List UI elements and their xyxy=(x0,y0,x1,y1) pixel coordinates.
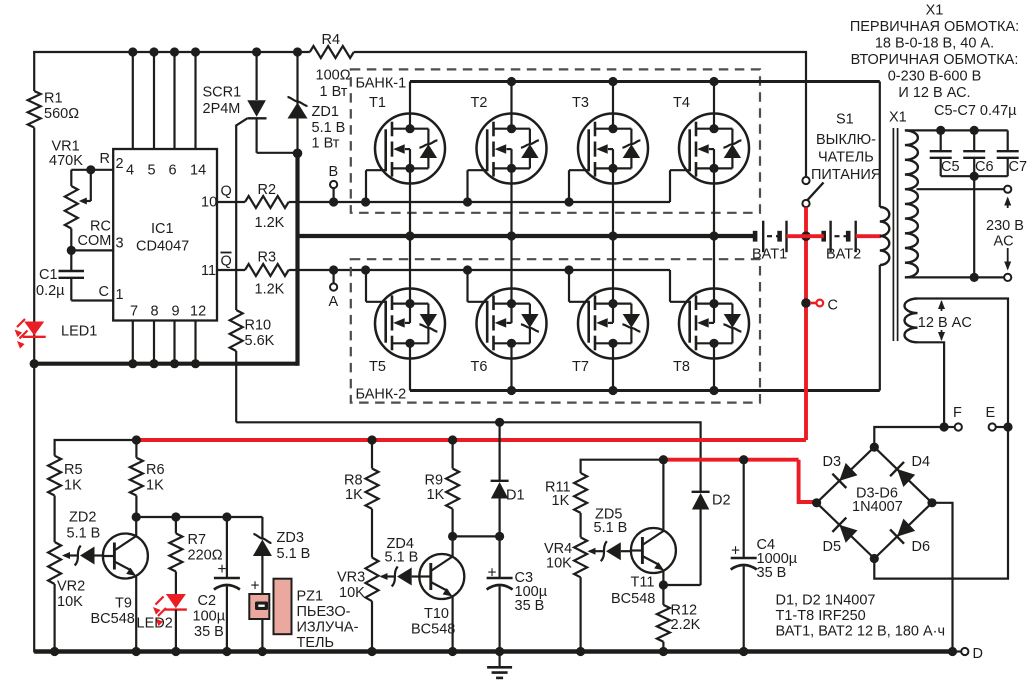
svg-text:2: 2 xyxy=(116,156,124,172)
svg-text:БАНК-2: БАНК-2 xyxy=(356,387,407,403)
svg-text:T6: T6 xyxy=(471,359,488,375)
wire R11 top link xyxy=(581,455,668,473)
svg-text:+: + xyxy=(488,565,497,582)
svg-text:12 В AC: 12 В AC xyxy=(918,315,972,331)
svg-text:T5: T5 xyxy=(369,359,386,375)
svg-text:S1: S1 xyxy=(836,112,854,128)
resistor R5 xyxy=(48,456,82,496)
wire T10 emitter lead xyxy=(452,597,454,652)
svg-text:1K: 1K xyxy=(552,493,570,509)
svg-text:10K: 10K xyxy=(57,594,83,610)
svg-text:R: R xyxy=(100,151,110,167)
wire R5-VR2 link xyxy=(53,496,55,543)
transistor T11 xyxy=(611,528,676,607)
zener diode ZD5 xyxy=(594,507,631,562)
capacitor C4 xyxy=(731,455,798,651)
svg-text:8: 8 xyxy=(151,304,159,320)
svg-text:R2: R2 xyxy=(258,182,277,198)
wire T7 gate stub xyxy=(568,270,570,302)
svg-text:D1, D2 1N4007: D1, D2 1N4007 xyxy=(776,593,876,609)
wire T8 top lead xyxy=(713,236,715,304)
terminal 230V upper xyxy=(1004,186,1011,193)
wire red charge bus xyxy=(136,438,806,442)
transistor T7 (MOSFET) xyxy=(569,289,648,376)
transformer X1 core xyxy=(889,110,907,342)
IC1 pin 10 label Q xyxy=(201,184,232,211)
wire T8 bottom lead xyxy=(713,343,715,390)
IC1 pin 7 wire xyxy=(128,304,138,369)
transistor T3 (MOSFET) xyxy=(569,95,648,184)
transistor T2 (MOSFET) xyxy=(468,95,547,184)
svg-text:D4: D4 xyxy=(912,454,931,470)
svg-text:PZ1: PZ1 xyxy=(297,589,324,605)
svg-text:ЧАТЕЛЬ: ЧАТЕЛЬ xyxy=(818,150,874,166)
svg-text:A: A xyxy=(329,294,339,310)
potentiometer VR2 xyxy=(48,542,85,652)
wire secondary top xyxy=(905,126,1008,135)
label 12V AC with arrows xyxy=(918,300,972,341)
wire bold battery center rail xyxy=(298,231,756,240)
dashed box BANK-2 xyxy=(351,259,760,402)
svg-text:D6: D6 xyxy=(912,539,931,555)
svg-text:C7: C7 xyxy=(1009,159,1028,175)
resistor R9 xyxy=(425,435,460,508)
wire R5 top link xyxy=(55,435,141,455)
zener diode ZD3 xyxy=(253,517,310,652)
wire left supply bus (vertical) xyxy=(33,51,35,653)
svg-text:T7: T7 xyxy=(572,359,589,375)
wire bank-2 drain rail xyxy=(410,386,880,395)
label component notes xyxy=(776,593,946,640)
svg-text:5.1 В: 5.1 В xyxy=(385,550,419,566)
svg-text:SCR1: SCR1 xyxy=(203,85,242,101)
svg-text:COM: COM xyxy=(78,233,112,249)
svg-text:C1: C1 xyxy=(39,267,58,283)
svg-text:1 Вт: 1 Вт xyxy=(320,84,348,100)
wire T4 gate stub xyxy=(669,170,671,202)
transistor T9 xyxy=(91,534,148,628)
IC1 pin 12 wire xyxy=(190,304,206,369)
capacitor C3 xyxy=(487,536,548,651)
potentiometer VR4 xyxy=(544,537,604,651)
svg-text:10K: 10K xyxy=(546,556,572,572)
svg-text:T4: T4 xyxy=(673,95,690,111)
terminal E xyxy=(986,405,1013,432)
svg-text:11: 11 xyxy=(201,263,216,279)
wire T3 source lead xyxy=(612,168,614,236)
wire R4 to S1 xyxy=(354,52,806,176)
transformer X1 secondary winding xyxy=(905,130,918,277)
wire T6 top lead xyxy=(510,236,512,304)
svg-text:2.2K: 2.2K xyxy=(671,617,701,633)
svg-text:BC548: BC548 xyxy=(611,591,655,607)
wire T5 gate stub xyxy=(365,270,367,302)
wire R6 lead xyxy=(135,440,137,458)
svg-text:10K: 10K xyxy=(339,585,365,601)
diode D4 xyxy=(874,447,932,503)
svg-text:T8: T8 xyxy=(673,359,690,375)
IC1 pin 1 wire (C) xyxy=(71,284,123,303)
label bridge D3-D6 xyxy=(852,486,903,516)
svg-text:1K: 1K xyxy=(64,478,82,494)
diode D5 xyxy=(817,503,875,559)
diode D3 xyxy=(817,447,875,503)
svg-text:C5-C7 0.47µ: C5-C7 0.47µ xyxy=(934,103,1017,119)
wire T10 collector node to D1/C3 xyxy=(453,532,505,541)
capacitor C5 xyxy=(930,130,960,176)
wire T2 drain lead xyxy=(510,82,512,129)
svg-text:1N4007: 1N4007 xyxy=(852,499,903,515)
wire bold logic ground rail xyxy=(30,359,298,368)
svg-text:+: + xyxy=(218,561,227,578)
node bridge top xyxy=(870,443,879,452)
svg-text:C6: C6 xyxy=(975,159,994,175)
svg-text:R3: R3 xyxy=(258,250,277,266)
transistor T8 (MOSFET) xyxy=(670,289,749,376)
svg-text:ZD2: ZD2 xyxy=(69,510,96,526)
svg-text:T2: T2 xyxy=(471,95,488,111)
svg-text:R6: R6 xyxy=(146,462,165,478)
svg-text:ВТОРИЧНАЯ ОБМОТКА:: ВТОРИЧНАЯ ОБМОТКА: xyxy=(851,52,1019,68)
potentiometer VR3 xyxy=(337,558,395,652)
svg-text:5.1 В: 5.1 В xyxy=(312,120,346,136)
svg-text:35 В: 35 В xyxy=(515,598,545,614)
IC1 pin 11 label Q-bar xyxy=(201,253,232,280)
svg-text:35 В: 35 В xyxy=(194,624,224,640)
svg-text:14: 14 xyxy=(190,163,206,179)
diode D2 xyxy=(692,492,731,585)
svg-text:ПЬЕЗО-: ПЬЕЗО- xyxy=(297,604,351,620)
svg-text:T9: T9 xyxy=(115,596,132,612)
LED LED1 xyxy=(15,319,98,349)
wire T6 gate stub xyxy=(466,270,468,302)
svg-text:C5: C5 xyxy=(941,159,960,175)
terminal B xyxy=(329,164,339,202)
wire T11 emitter lead xyxy=(659,571,668,590)
svg-text:ТЕЛЬ: ТЕЛЬ xyxy=(297,635,335,651)
IC U1 CD4047 body xyxy=(113,149,217,321)
LED LED2 xyxy=(137,572,187,652)
svg-text:2P4M: 2P4M xyxy=(203,101,241,117)
piezo buzzer PZ1 xyxy=(249,578,358,652)
svg-text:D2: D2 xyxy=(712,493,731,509)
terminal C xyxy=(801,298,838,314)
svg-text:5.6K: 5.6K xyxy=(245,333,275,349)
svg-text:560Ω: 560Ω xyxy=(44,106,79,122)
wire bold ground rail xyxy=(34,647,957,656)
transistor T5 (MOSFET) xyxy=(366,289,445,376)
svg-text:ZD1: ZD1 xyxy=(312,104,339,120)
wire capacitor join xyxy=(941,172,1008,181)
svg-text:1K: 1K xyxy=(345,487,363,503)
capacitor C2 xyxy=(193,517,240,652)
resistor R4 xyxy=(310,32,354,100)
wire T4 drain lead xyxy=(713,82,715,129)
svg-text:BC548: BC548 xyxy=(91,611,135,627)
transformer X1 12V winding xyxy=(905,299,918,343)
svg-text:5: 5 xyxy=(148,163,156,179)
wire gate bus A xyxy=(289,265,670,274)
wire 12V top to E xyxy=(918,299,1009,428)
wire T3 gate stub xyxy=(568,170,570,202)
svg-text:4: 4 xyxy=(126,163,134,179)
svg-text:100µ: 100µ xyxy=(193,609,226,625)
transistor T6 (MOSFET) xyxy=(468,289,547,376)
wire T2 gate stub xyxy=(466,170,468,202)
transformer X1 primary winding xyxy=(880,82,890,391)
wire T7 top lead xyxy=(612,236,614,304)
svg-text:1 Вт: 1 Вт xyxy=(312,136,340,152)
wire bridge AC bottom feed xyxy=(874,427,1008,579)
wire top supply rail xyxy=(33,51,310,53)
svg-text:LED1: LED1 xyxy=(61,324,97,340)
svg-text:12: 12 xyxy=(190,304,206,320)
switch S1 xyxy=(802,112,881,208)
wire bridge negative to ground rail xyxy=(932,503,953,652)
wire T1 drain lead xyxy=(409,82,411,129)
wire bank-1 drain rail xyxy=(410,77,880,86)
svg-text:VR2: VR2 xyxy=(57,579,85,595)
svg-text:F: F xyxy=(953,405,962,421)
svg-text:3: 3 xyxy=(116,236,124,252)
wire T2 source lead xyxy=(510,168,512,236)
wire T11 collector lead xyxy=(662,460,664,531)
svg-text:D1: D1 xyxy=(506,488,525,504)
svg-text:18 В-0-18 В, 40 А.: 18 В-0-18 В, 40 А. xyxy=(875,36,994,52)
wire gate bus B xyxy=(289,197,670,206)
svg-text:CD4047: CD4047 xyxy=(136,239,189,255)
svg-text:35 В: 35 В xyxy=(757,565,787,581)
wire R6 to T9 collector xyxy=(132,496,141,522)
svg-text:1.2K: 1.2K xyxy=(255,282,285,298)
wire C6 to output xyxy=(970,176,979,282)
terminal A xyxy=(329,270,339,310)
svg-text:470K: 470K xyxy=(49,153,83,169)
node battery center tap xyxy=(801,231,811,241)
diode D1 xyxy=(491,422,525,536)
wire red charger output xyxy=(663,460,816,502)
svg-text:R5: R5 xyxy=(64,462,83,478)
transistor T10 xyxy=(411,554,464,638)
svg-text:X1: X1 xyxy=(889,110,907,126)
resistor R7 xyxy=(169,517,222,572)
node bridge right xyxy=(927,498,936,507)
terminal 230V lower xyxy=(1004,274,1011,281)
label 230V AC with arrows xyxy=(986,197,1024,271)
svg-text:D3: D3 xyxy=(823,454,842,470)
wire T4 source lead xyxy=(713,168,715,236)
svg-text:0.2µ: 0.2µ xyxy=(36,283,65,299)
svg-text:+: + xyxy=(731,543,740,560)
IC1 pin 3 wire (RC COM) xyxy=(67,219,124,255)
svg-text:BC548: BC548 xyxy=(411,622,455,638)
svg-text:ВАТ1, ВАТ2 12 В, 180 А·ч: ВАТ1, ВАТ2 12 В, 180 А·ч xyxy=(776,624,946,640)
node SCR1/ZD1 cathode junction xyxy=(293,149,303,159)
wire T1 source lead xyxy=(409,168,411,236)
resistor R8 xyxy=(344,435,379,508)
terminal D xyxy=(953,646,983,662)
wire 12V bottom to F xyxy=(918,342,945,427)
wire R11-VR4 link xyxy=(579,513,581,538)
node bridge bottom xyxy=(870,554,879,563)
svg-text:1.2K: 1.2K xyxy=(255,215,285,231)
wire R9 to T10 collector xyxy=(448,509,457,541)
wire T9 collector bus xyxy=(136,512,262,521)
wire secondary 230V tap xyxy=(917,188,1005,190)
thyristor SCR1 xyxy=(203,47,297,270)
dashed box BANK-1 xyxy=(351,69,760,212)
svg-text:R1: R1 xyxy=(44,91,63,107)
node bridge left xyxy=(812,498,821,507)
wire T1 gate stub xyxy=(365,170,367,202)
svg-text:1K: 1K xyxy=(427,487,445,503)
capacitor C6 xyxy=(963,130,993,176)
svg-text:5.1 В: 5.1 В xyxy=(594,520,628,536)
svg-text:C: C xyxy=(99,284,109,300)
resistor R12 xyxy=(657,585,701,652)
potentiometer VR1 xyxy=(49,139,91,251)
svg-text:E: E xyxy=(986,405,996,421)
svg-text:VR3: VR3 xyxy=(337,570,365,586)
zener diode ZD4 xyxy=(385,536,420,587)
svg-text:ИЗЛУЧА-: ИЗЛУЧА- xyxy=(297,620,359,636)
svg-text:BAT1: BAT1 xyxy=(752,247,787,263)
IC1 pin 5 wire xyxy=(148,47,159,178)
IC1 pin 6 wire xyxy=(169,47,180,178)
svg-text:ВЫКЛЮ-: ВЫКЛЮ- xyxy=(816,132,876,148)
IC1 pin 14 wire xyxy=(190,47,206,178)
wire T10 collector lead xyxy=(452,536,454,556)
svg-text:1K: 1K xyxy=(146,478,164,494)
transistor T4 (MOSFET) xyxy=(670,95,749,184)
IC1 pin 2 wire (R) xyxy=(71,151,123,174)
battery BAT2 xyxy=(824,221,862,263)
ground symbol xyxy=(487,652,512,678)
wire T11 emitter to D2 xyxy=(663,584,700,586)
resistor R10 xyxy=(230,270,275,422)
wire T5 top lead xyxy=(409,236,411,304)
svg-text:+: + xyxy=(251,578,260,595)
svg-text:9: 9 xyxy=(172,304,180,320)
svg-text:D: D xyxy=(973,646,983,662)
svg-text:10: 10 xyxy=(201,195,217,211)
svg-text:И 12 В АС.: И 12 В АС. xyxy=(898,85,970,101)
svg-text:Q: Q xyxy=(221,254,232,270)
svg-text:B: B xyxy=(329,164,339,180)
wire red BAT1-BAT2 link xyxy=(787,234,824,238)
resistor R2 xyxy=(217,182,289,231)
wire bridge AC top feed xyxy=(874,427,944,447)
svg-text:T10: T10 xyxy=(424,606,449,622)
wire red battery feed xyxy=(804,207,808,440)
resistor R11 xyxy=(545,473,587,513)
svg-text:100Ω: 100Ω xyxy=(316,68,351,84)
wire T8 gate stub xyxy=(669,270,671,302)
wire red BAT2 to primary xyxy=(856,234,881,238)
terminal F xyxy=(940,405,963,432)
svg-text:БАНК-1: БАНК-1 xyxy=(356,76,407,92)
diode D6 xyxy=(874,503,932,559)
svg-text:Q: Q xyxy=(221,184,232,200)
svg-text:T3: T3 xyxy=(572,95,589,111)
svg-text:C2: C2 xyxy=(198,593,217,609)
wire T9 collector lead xyxy=(135,517,137,536)
resistor R6 xyxy=(130,458,165,496)
IC1 pin 9 wire xyxy=(170,304,180,369)
IC1 pin 8 wire xyxy=(149,304,158,369)
svg-text:6: 6 xyxy=(169,163,177,179)
battery BAT1 xyxy=(752,221,787,263)
svg-text:R4: R4 xyxy=(322,32,341,48)
svg-text:ZD3: ZD3 xyxy=(277,530,304,546)
svg-text:R10: R10 xyxy=(245,318,272,334)
svg-text:T1: T1 xyxy=(369,95,386,111)
svg-text:T11: T11 xyxy=(631,575,655,591)
transistor T1 (MOSFET) xyxy=(366,95,445,184)
svg-text:7: 7 xyxy=(130,304,138,320)
wire T6 bottom lead xyxy=(510,343,512,390)
svg-text:T1-T8 IRF250: T1-T8 IRF250 xyxy=(776,608,866,624)
resistor R3 xyxy=(217,250,289,298)
wire R8-VR3 link xyxy=(371,509,373,558)
wire T5 bottom lead xyxy=(409,343,411,390)
wire bold ground riser xyxy=(295,153,299,365)
zener diode ZD1 xyxy=(288,47,346,153)
svg-text:X1: X1 xyxy=(926,3,944,19)
svg-text:LED2: LED2 xyxy=(137,616,173,632)
label X1 winding specification xyxy=(850,3,1019,102)
svg-text:C: C xyxy=(828,298,838,314)
label C5-C7 value xyxy=(934,103,1017,119)
svg-text:D5: D5 xyxy=(823,539,842,555)
IC1 pin 4 wire xyxy=(126,47,137,178)
wire gate-drive line xyxy=(236,418,700,491)
wire T7 bottom lead xyxy=(612,343,614,390)
resistor R1 xyxy=(28,91,79,128)
svg-text:AC: AC xyxy=(994,234,1014,250)
svg-text:R7: R7 xyxy=(188,532,207,548)
svg-text:5.1 В: 5.1 В xyxy=(67,526,101,542)
wire T9 emitter lead xyxy=(135,577,137,652)
svg-text:BAT2: BAT2 xyxy=(826,247,861,263)
svg-text:ПЕРВИЧНАЯ ОБМОТКА:: ПЕРВИЧНАЯ ОБМОТКА: xyxy=(850,19,1019,35)
wire secondary bottom xyxy=(905,276,1004,278)
svg-text:ПИТАНИЯ: ПИТАНИЯ xyxy=(811,167,881,183)
capacitor C1 xyxy=(36,250,84,300)
capacitor C7 xyxy=(997,130,1027,176)
svg-text:0-230 В-600 В: 0-230 В-600 В xyxy=(888,69,982,85)
svg-text:1: 1 xyxy=(116,287,124,303)
svg-text:5.1 В: 5.1 В xyxy=(277,546,311,562)
wire T3 drain lead xyxy=(612,82,614,129)
svg-text:IC1: IC1 xyxy=(151,221,174,237)
svg-text:230 В: 230 В xyxy=(986,218,1024,234)
zener diode ZD2 xyxy=(67,510,103,566)
